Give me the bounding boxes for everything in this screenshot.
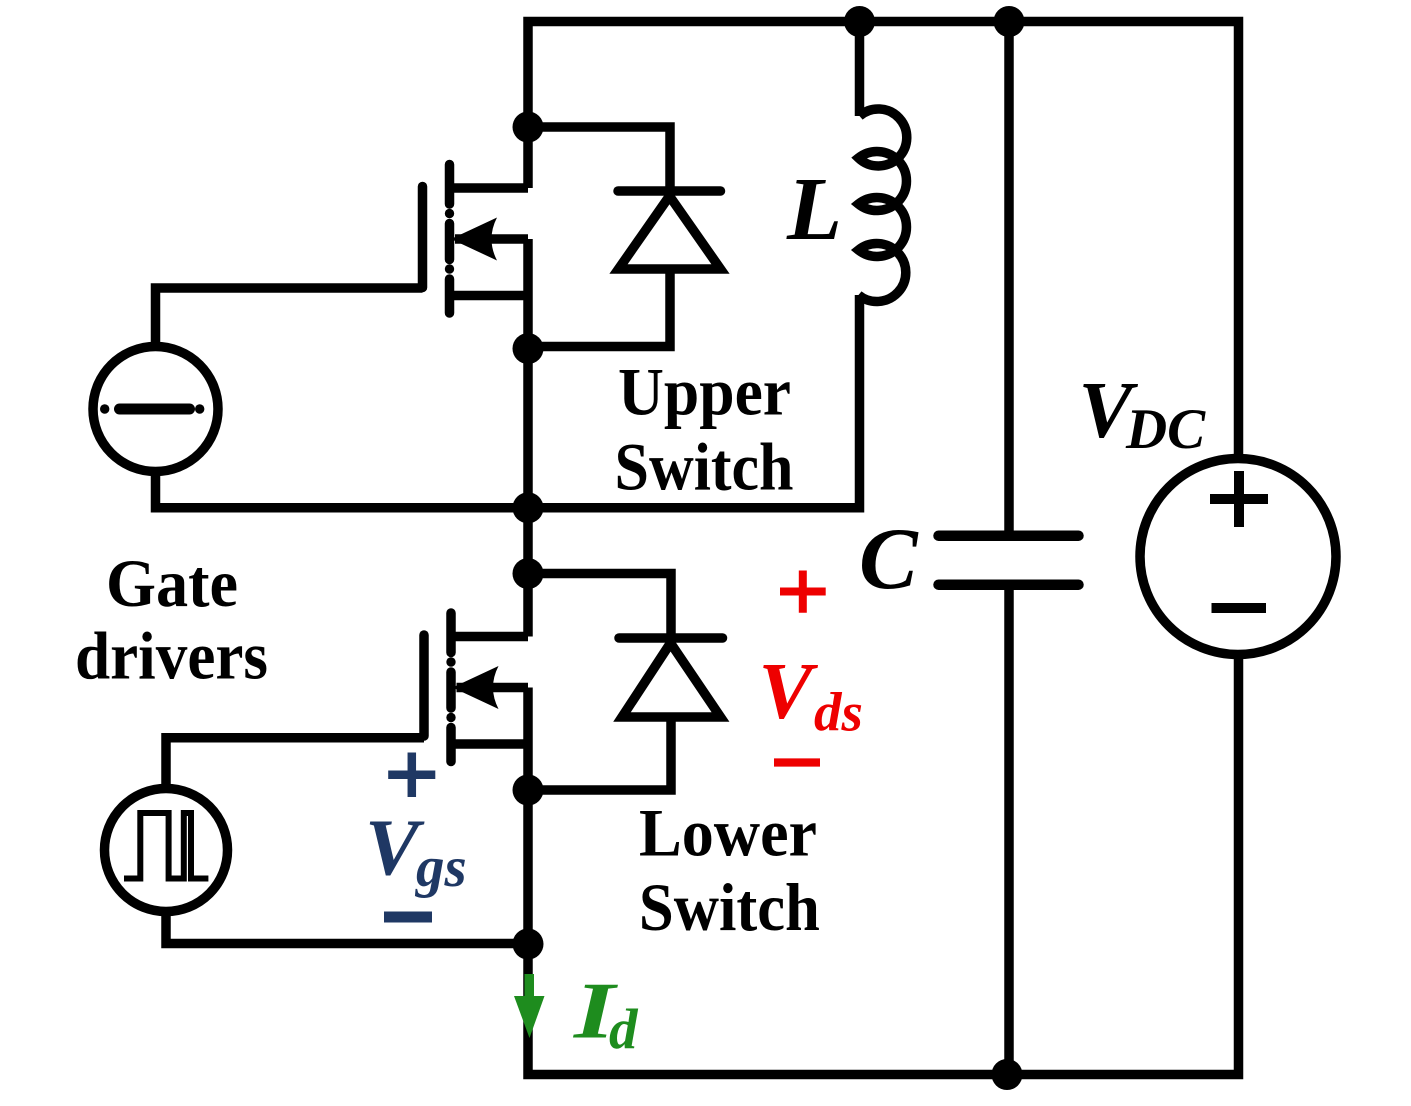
wire driver2 bottom return [166,912,528,944]
svg-text:V: V [759,646,819,736]
wire top bus + left rail top + VDC top feed [528,22,1239,459]
diode D1 upper body diode : cathode bar [618,186,721,196]
label Lower Switch [639,794,820,945]
transistor Q2 lower switch : drain line [451,632,528,642]
transistor Q1 upper switch : channel dots [445,209,454,218]
transistor Q1 upper switch : body line [455,234,528,244]
svg-text:Switch: Switch [639,869,820,945]
source G1 symbol flat level [120,404,190,415]
capacitor C : top stub [1004,22,1014,532]
transistor Q1 upper switch : gate bar [418,187,428,288]
node capacitor-bottom [992,1059,1023,1090]
source VDC minus sign [1212,603,1267,613]
svg-text:ds: ds [814,682,863,743]
svg-text:C: C [859,511,919,608]
wire phase node to driver1 bottom and to inductor bottom [156,295,860,508]
wire middle rail (upper body line to lower drain line) [523,239,533,637]
diode D2 lower body diode : cathode bar [619,633,723,643]
transistor Q2 lower switch : channel dashes [446,613,456,762]
transistor Q1 upper switch : source line [450,291,529,301]
transistor Q1 upper switch : drain line [450,183,529,193]
node lower-source [513,775,544,806]
transistor Q1 upper switch : arrowhead [451,218,497,261]
label Upper Switch [615,354,794,505]
diode D1 upper body diode : anode wire to source node [528,269,670,347]
label plus red [780,571,826,613]
svg-text:Upper: Upper [618,354,791,430]
svg-text:Lower: Lower [639,794,817,870]
transistor Q2 lower switch : channel dots [446,657,455,666]
diode D2 lower body diode : triangle [622,643,721,717]
svg-text:L: L [786,160,842,259]
diode D1 upper body diode : triangle [619,196,721,269]
source VDC plus sign [1210,471,1268,527]
node upper-source [513,333,544,364]
label plus navy [388,753,435,798]
capacitor C : bottom plate [939,579,1079,590]
current arrow Id [514,974,545,1038]
node capacitor-top [994,6,1025,37]
transistor Q2 lower switch : gate bar [419,635,429,736]
transistor Q2 lower switch : body line [457,683,529,693]
label minus red [774,758,820,766]
transistor Q1 upper switch : channel dashes [445,165,455,314]
diode D2 lower body diode : cathode feed wire [528,574,671,639]
source G1 gate driver upper circle [93,347,218,472]
node driver2-return [513,929,544,960]
capacitor C : bottom stub [1004,590,1014,1075]
wire gate of Q2 to driver 2 [166,738,424,789]
node drain-top [513,112,544,143]
capacitor C : top plate [939,530,1079,541]
node lower-drain [513,558,544,589]
svg-text:drivers: drivers [75,617,268,693]
source VDC circle [1140,459,1336,655]
inductor L : top stub [855,22,865,117]
node phase [513,492,544,523]
transistor Q2 lower switch : source line [451,739,528,749]
svg-text:gs: gs [414,836,467,899]
wire bottom bus + rail lower + VDC bottom feed [528,655,1239,1075]
source G2 double pulse symbol [124,813,208,879]
label Gate drivers [75,545,268,693]
svg-text:DC: DC [1125,398,1206,461]
wire gate of Q1 to driver 1 [156,288,423,347]
transistor Q2 lower switch : arrowhead [453,666,499,709]
svg-text:Switch: Switch [615,428,794,504]
svg-text:Gate: Gate [106,545,238,621]
diode D2 lower body diode : anode wire to source node [528,717,671,790]
node inductor-top [844,6,875,37]
svg-text:d: d [609,998,639,1061]
label minus navy [384,912,432,923]
source G2 gate driver lower circle [105,789,228,912]
inductor L : coil [859,109,907,302]
diode D1 upper body diode : cathode feed wire [528,127,670,191]
